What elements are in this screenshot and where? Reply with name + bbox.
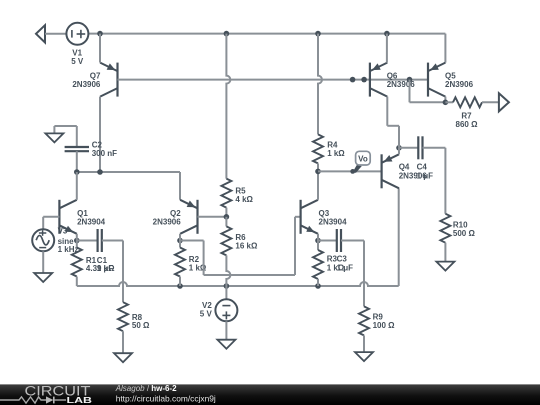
svg-text:R5: R5 [235, 186, 246, 195]
node Q5 collector-R7 [443, 100, 449, 106]
node Q4 emitter junction [396, 145, 402, 151]
wire Q3 emitter stub [317, 234, 319, 241]
svg-text:5 V: 5 V [200, 310, 213, 319]
svg-text:5 V: 5 V [71, 57, 84, 66]
wire Q5 collector stub [444, 97, 446, 103]
svg-text:1 μF: 1 μF [337, 263, 354, 272]
wire Q1 base left [43, 216, 59, 218]
wire Q1 collector up [76, 172, 78, 200]
wire C4 to R10 [444, 148, 446, 214]
resistor R9 [359, 306, 369, 335]
ground at V3 [34, 273, 52, 282]
wire Q5 base-collector tie [409, 80, 411, 103]
svg-text:V1: V1 [72, 48, 82, 57]
wire base bus Q7-Q6-Q5 [118, 79, 429, 81]
transistor Q2 [196, 200, 198, 234]
node R4-Q3-Vo junction [315, 169, 321, 175]
node rail-R2 [177, 283, 183, 289]
svg-text:50 Ω: 50 Ω [132, 321, 150, 330]
wire Q2 collector to Q3 base [180, 240, 204, 242]
svg-text:C3: C3 [337, 255, 348, 264]
wire Q1 emitter stub [76, 234, 78, 241]
node junction rail-R4 [315, 31, 321, 37]
source V2 [225, 286, 227, 299]
node junction rail-R5 [224, 31, 230, 37]
svg-text:V3: V3 [58, 227, 68, 236]
wire C3 to R9 [363, 241, 365, 307]
capacitor C4 [399, 147, 418, 149]
wire node A horizontal [77, 171, 180, 173]
svg-text:1 kΩ: 1 kΩ [327, 149, 345, 158]
wire Q2 base to R5R6 node [198, 216, 227, 218]
wire Q3 collector up [317, 171, 319, 199]
svg-text:100 Ω: 100 Ω [373, 321, 396, 330]
svg-text:16 kΩ: 16 kΩ [235, 242, 258, 251]
resistor R4 [313, 134, 323, 163]
wire top supply rail [88, 33, 445, 35]
input flag IN [36, 25, 45, 42]
node rail-V2-R6 [224, 283, 230, 289]
node dot on base bus 2 [361, 77, 367, 83]
resistor R5 feed [226, 34, 230, 179]
CircuitLab logo resistor squiggle [0, 397, 46, 403]
wire bottom rail [77, 282, 399, 286]
node junction C2-Q1 [74, 169, 80, 175]
node junction Q7 collector [97, 169, 103, 175]
wire flag to V1 [45, 33, 66, 35]
ground at R8 [114, 353, 132, 362]
resistor R10 [440, 214, 450, 243]
ground at R10 [436, 262, 454, 271]
output flag [499, 93, 509, 111]
transistor Q6 [369, 63, 371, 97]
svg-text:1 μF: 1 μF [417, 171, 434, 180]
voltage source V1 [66, 23, 88, 45]
resistor R5 [221, 179, 231, 208]
svg-text:2N3904: 2N3904 [319, 218, 348, 227]
svg-text:4.39 kΩ: 4.39 kΩ [86, 264, 115, 273]
ground at R9 [355, 352, 373, 361]
svg-text:2N3906: 2N3906 [445, 80, 474, 89]
CircuitLab logo diode [46, 396, 53, 403]
svg-text:4 kΩ: 4 kΩ [235, 195, 253, 204]
svg-text:2N3906: 2N3906 [387, 80, 416, 89]
wire V2 to ground [225, 321, 227, 339]
wire Q5 emitter drop from rail [444, 34, 446, 63]
node junction V1-Q7 [97, 31, 103, 37]
svg-text:2N3904: 2N3904 [77, 218, 106, 227]
resistor R8 [118, 302, 128, 331]
svg-text:R6: R6 [235, 233, 246, 242]
transistor Q3 [300, 200, 302, 234]
flag Vo [352, 164, 362, 172]
wire Q7 collector down [99, 97, 101, 172]
transistor Q7 [116, 63, 118, 97]
wire Q4 emitter stub [398, 148, 400, 155]
svg-text:C4: C4 [417, 162, 428, 171]
svg-text:LAB: LAB [67, 395, 93, 405]
wire C1 to R8 [122, 241, 124, 303]
resistor R6 [225, 217, 227, 227]
svg-text:http://circuitlab.com/ccjxn9j: http://circuitlab.com/ccjxn9j [116, 393, 216, 403]
svg-text:2N3906: 2N3906 [72, 80, 101, 89]
wire down to Q2 emitter [179, 172, 181, 200]
resistor R4 feed [318, 34, 322, 135]
svg-text:300 nF: 300 nF [92, 149, 117, 158]
resistor R2 [179, 241, 181, 248]
source V3 sine [32, 229, 54, 251]
node R5-R6-Q2base [224, 214, 230, 220]
node rail-R3 [315, 283, 321, 289]
node Q1 emitter junction [74, 238, 80, 244]
svg-text:Q4: Q4 [399, 162, 410, 171]
ground at C2 [76, 126, 78, 147]
transistor Q5 [427, 63, 429, 97]
transistor Q4 [381, 154, 383, 188]
wire bottom rail up to Q4 collector [398, 188, 400, 286]
ground at V2 [217, 340, 235, 349]
wire Vo node to Q4 base [318, 170, 382, 172]
wire Q7 emitter to rail [99, 34, 101, 63]
capacitor C3 [318, 240, 337, 242]
node Q3 emitter junction [315, 238, 321, 244]
resistor R1 [76, 241, 78, 248]
svg-text:R7: R7 [461, 111, 472, 120]
svg-text:Alsagob / hw-6-2: Alsagob / hw-6-2 [115, 384, 177, 393]
node Q2 collector junction [177, 238, 183, 244]
svg-text:860 Ω: 860 Ω [456, 120, 479, 129]
svg-text:500 Ω: 500 Ω [453, 229, 476, 238]
resistor R3 [317, 241, 319, 251]
node dot base-Q5 tie [407, 77, 413, 83]
svg-text:Vo: Vo [358, 155, 368, 164]
transistor Q1 [58, 200, 60, 234]
wire V3 to ground [42, 251, 44, 273]
wire Q6 emitter to rail [386, 34, 388, 63]
wire Q2 collector stub [179, 234, 181, 241]
wire Q6 collector to Q4 emitter [386, 97, 388, 126]
svg-text:R10: R10 [453, 220, 468, 229]
node dot on base bus [350, 77, 356, 83]
capacitor C1 [77, 240, 98, 242]
node junction rail-Q6 [384, 31, 390, 37]
resistor R7 [445, 101, 453, 103]
capacitor C2 [65, 146, 89, 148]
svg-text:2N3906: 2N3906 [153, 218, 182, 227]
